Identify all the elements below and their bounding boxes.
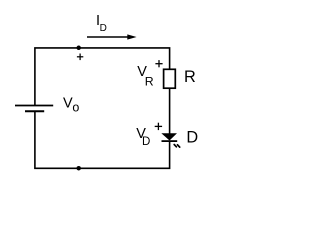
polarity + top bbox=[77, 54, 83, 61]
diode D cathode bar bbox=[162, 140, 178, 142]
wire: battery bottom plate down, across bottom, up to diode bbox=[35, 111, 170, 168]
diode emission dash 1 bbox=[174, 145, 176, 147]
svg-text:D: D bbox=[142, 136, 150, 148]
node dot bottom bbox=[76, 166, 81, 171]
polarity + for V_R bbox=[155, 60, 162, 67]
node dot top bbox=[76, 46, 81, 51]
svg-text:R: R bbox=[184, 68, 196, 86]
diode emission dash 2 bbox=[178, 145, 180, 147]
wire: resistor bottom to diode top bbox=[169, 88, 171, 135]
svg-text:R: R bbox=[145, 75, 154, 89]
polarity + for V_D bbox=[155, 123, 162, 130]
diode D triangle (anode) bbox=[162, 134, 176, 140]
battery V_o long plate (+) bbox=[15, 105, 53, 107]
resistor R body bbox=[164, 69, 176, 88]
battery V_o short plate (-) bbox=[25, 110, 44, 112]
svg-text:D: D bbox=[100, 23, 107, 34]
svg-text:o: o bbox=[72, 101, 79, 115]
current arrow I_D bbox=[87, 36, 129, 38]
wire: battery top plate up, across top, down to resistor bbox=[35, 48, 170, 106]
svg-text:D: D bbox=[186, 128, 198, 146]
